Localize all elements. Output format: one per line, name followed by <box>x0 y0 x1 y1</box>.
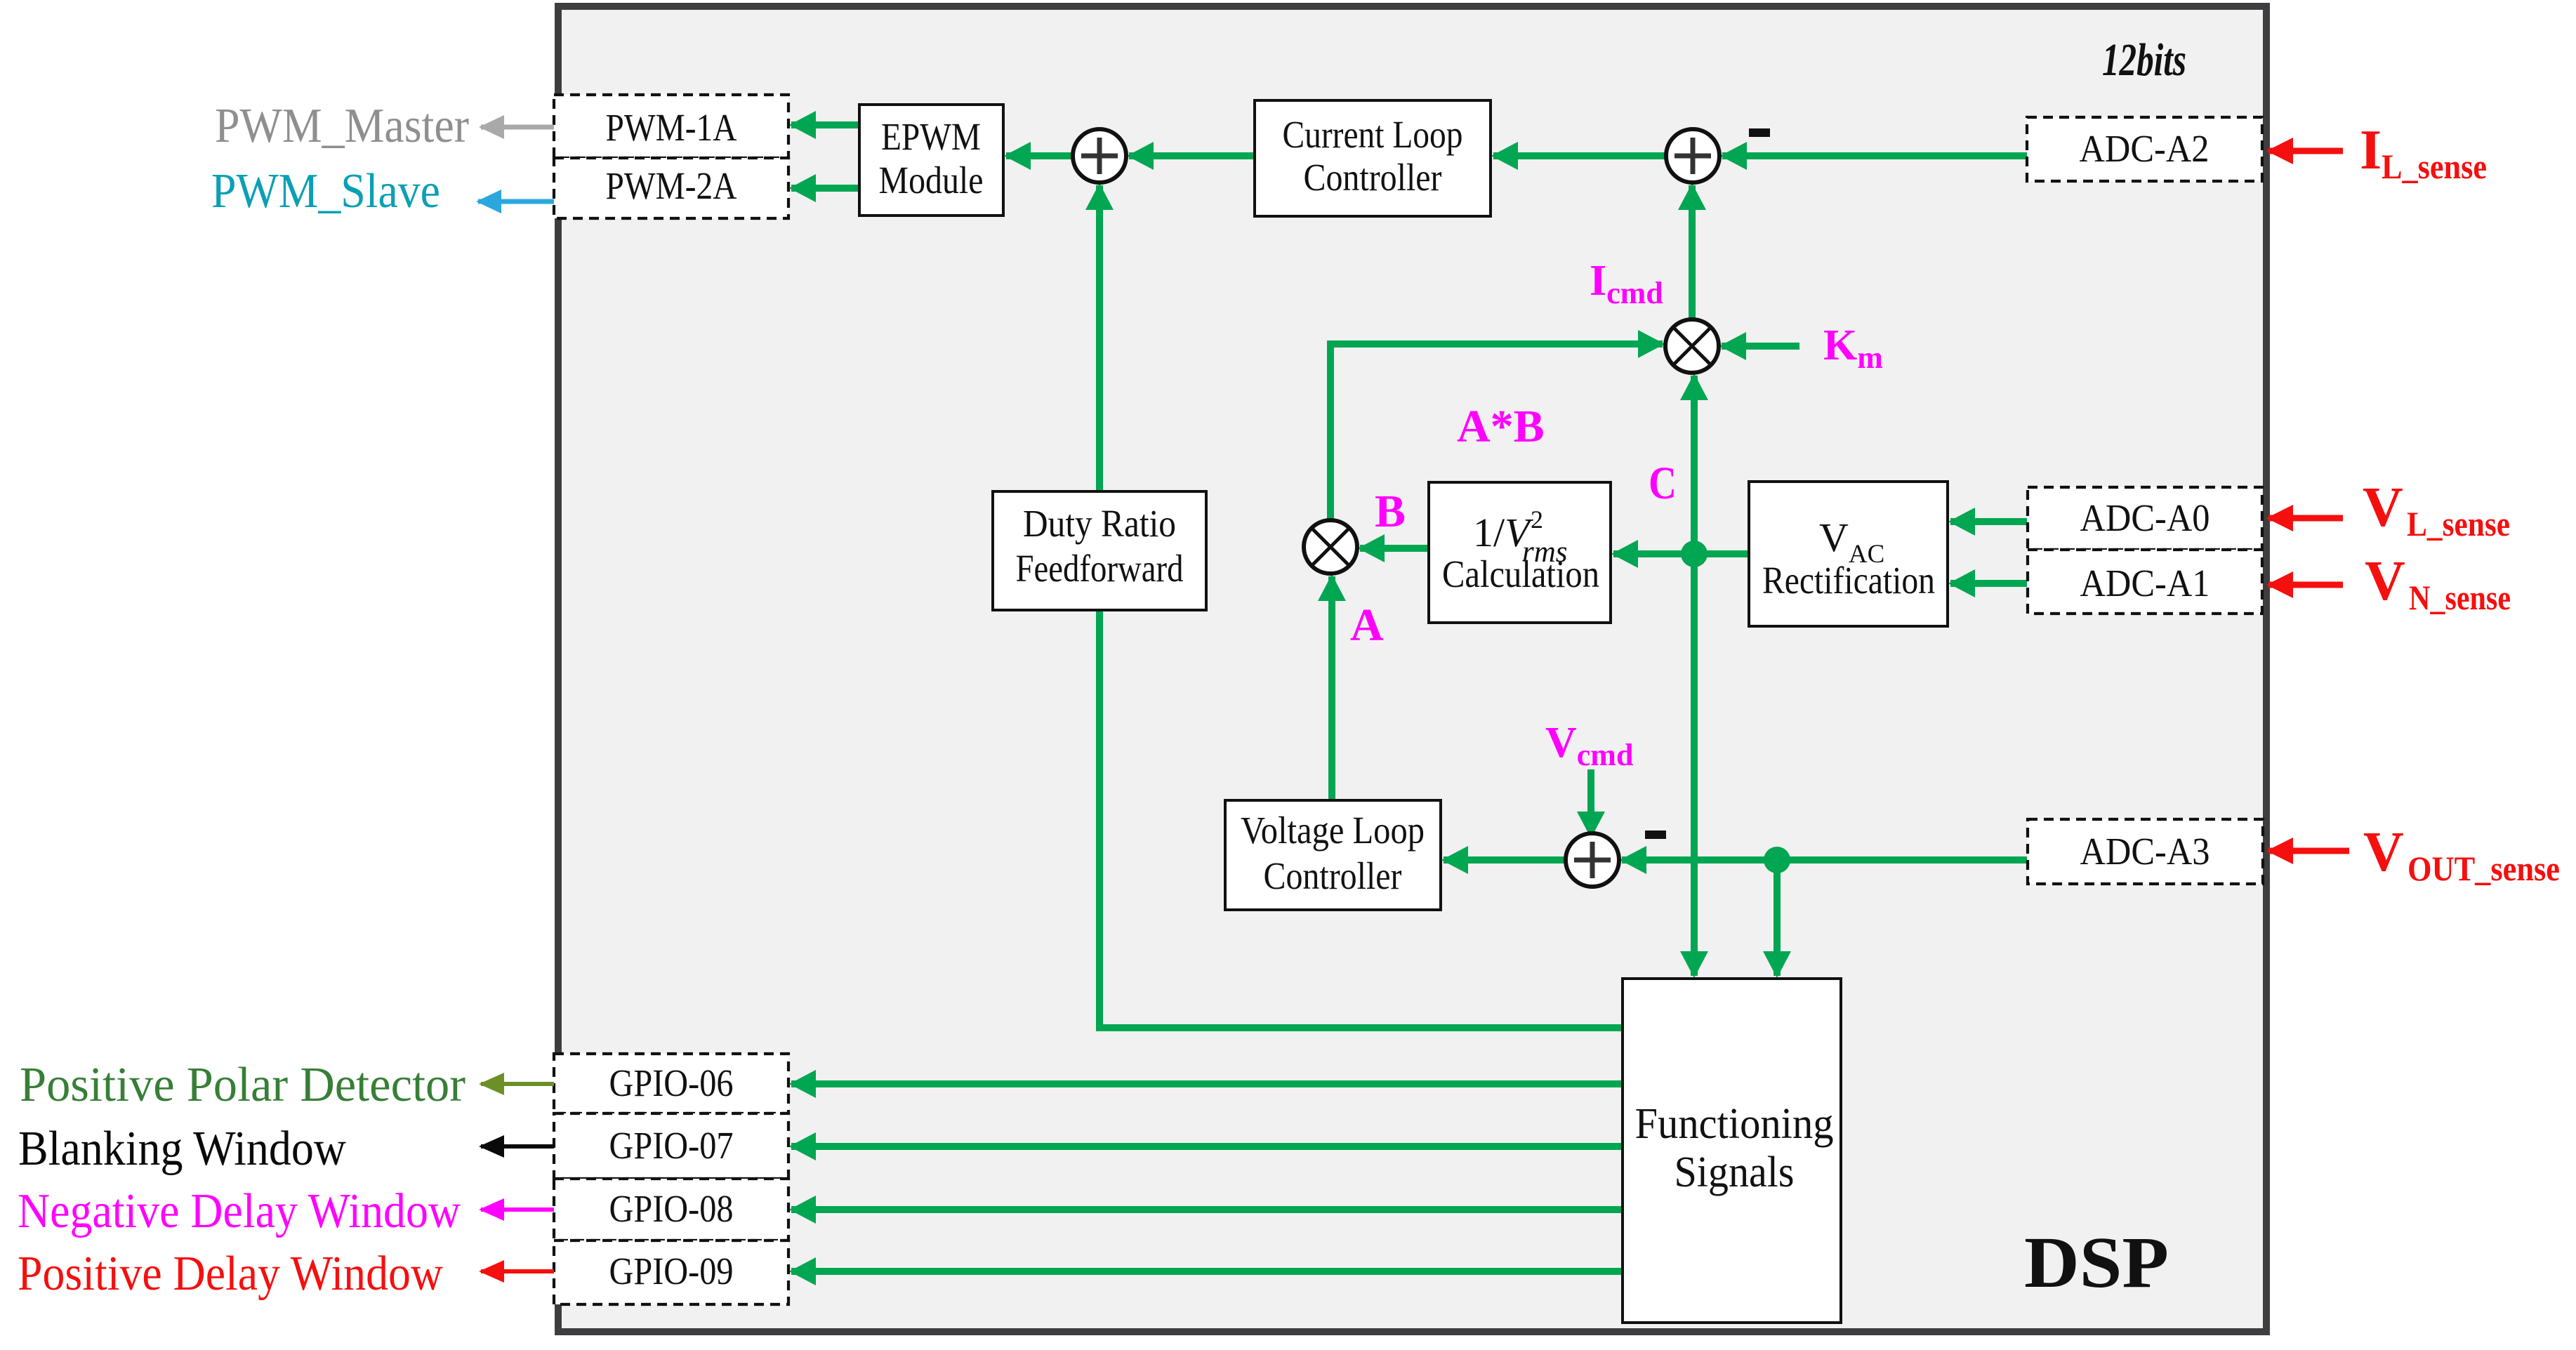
wire node C up into Km multiplier <box>1691 376 1698 554</box>
svg-text:Positive Delay Window: Positive Delay Window <box>18 1247 443 1301</box>
svg-text:Negative Delay Window: Negative Delay Window <box>18 1184 461 1238</box>
wire Vcmd into voltage summing junction <box>1587 769 1594 836</box>
wire voltage summing junction to Voltage Loop Controller <box>1444 856 1566 863</box>
wire ADC-A2 to current summing junction <box>1722 152 2027 159</box>
minus sign at current summing junction <box>1749 128 1770 137</box>
node dot on Vout feedback <box>1764 847 1790 873</box>
svg-text:PWM-2A: PWM-2A <box>606 164 737 207</box>
ADC-A0 dashed box <box>2028 487 2262 550</box>
wire Functioning Signals to GPIO-06 <box>791 1080 1623 1087</box>
svg-text:EPWM: EPWM <box>881 115 981 158</box>
wire ADC-A3 to voltage summing junction <box>1622 856 2027 863</box>
summing junction (current loop) <box>1666 129 1719 183</box>
summing junction (voltage loop) <box>1566 833 1619 887</box>
svg-text:Module: Module <box>879 159 984 201</box>
wire Functioning Signals to GPIO-09 <box>791 1268 1623 1275</box>
ADC-A1 dashed box <box>2028 550 2262 614</box>
DSP enclosure box <box>558 6 2266 1332</box>
svg-text:OUT_sense: OUT_sense <box>2407 849 2560 888</box>
red arrow Positive Delay Window <box>481 1269 554 1273</box>
black arrow Blanking Window <box>481 1144 554 1149</box>
GPIO-06 dashed box <box>554 1054 788 1113</box>
PWM-1A dashed box <box>554 95 788 158</box>
svg-text:ADC-A0: ADC-A0 <box>2080 496 2210 539</box>
wire Vout node down into Functioning Signals <box>1774 860 1781 976</box>
teal arrow PWM_Slave <box>478 199 554 204</box>
svg-text:Calculation: Calculation <box>1442 552 1599 595</box>
red arrow VOUT_sense input <box>2268 848 2349 854</box>
EPWM Module box <box>859 105 1003 216</box>
wire EPWM summing junction to EPWM Module <box>1006 152 1073 159</box>
svg-text:Controller: Controller <box>1264 854 1402 897</box>
1/Vrms2 Calculation box <box>1429 482 1611 623</box>
wire VAC Rectification output to node C <box>1694 550 1749 557</box>
svg-text:12bits: 12bits <box>2102 34 2186 86</box>
svg-text:Rectification: Rectification <box>1762 559 1935 602</box>
GPIO-07 dashed box <box>554 1113 788 1179</box>
summing junction (EPWM input) <box>1073 129 1126 183</box>
wire Current Loop Controller to EPWM summing junction <box>1129 152 1255 159</box>
Functioning Signals box <box>1623 979 1841 1323</box>
svg-text:L_sense: L_sense <box>2382 147 2487 186</box>
svg-text:Current Loop: Current Loop <box>1283 113 1463 156</box>
wire ADC-A1 to VAC Rectification <box>1950 580 2027 587</box>
svg-text:DSP: DSP <box>2024 1222 2169 1303</box>
multiplier Km (Icmd) <box>1665 319 1719 373</box>
wire EPWM Module to PWM-1A <box>791 121 859 128</box>
svg-text:V: V <box>2365 550 2405 612</box>
node dot C on VAC output <box>1681 541 1708 567</box>
svg-text:Controller: Controller <box>1304 156 1442 199</box>
wire node C to 1/Vrms2 Calculation <box>1613 550 1694 557</box>
wire Functioning Signals to GPIO-08 <box>791 1206 1623 1213</box>
wire EPWM Module to PWM-2A <box>791 185 859 192</box>
svg-text:GPIO-09: GPIO-09 <box>609 1250 734 1292</box>
svg-text:A*B: A*B <box>1457 401 1545 452</box>
red arrow IL_sense input <box>2268 148 2343 154</box>
svg-text:L_sense: L_sense <box>2407 504 2510 543</box>
wire Voltage Loop Controller output A up to multiplier <box>1328 576 1335 800</box>
svg-text:Functioning: Functioning <box>1635 1100 1834 1148</box>
svg-text:Signals: Signals <box>1675 1149 1795 1196</box>
wire ADC-A0 to VAC Rectification <box>1950 518 2027 525</box>
wire Km constant into multiplier <box>1722 343 1799 350</box>
svg-text:PWM_Slave: PWM_Slave <box>211 164 440 218</box>
wire current summing junction to Current Loop Controller <box>1493 152 1666 159</box>
wire node C down into Functioning Signals <box>1691 554 1698 976</box>
svg-text:GPIO-07: GPIO-07 <box>609 1124 734 1167</box>
svg-text:A: A <box>1350 600 1384 651</box>
wire 1/Vrms2 Calculation output B to multiplier <box>1360 545 1429 552</box>
svg-text:Blanking Window: Blanking Window <box>18 1122 346 1176</box>
ADC-A2 dashed box <box>2027 117 2262 181</box>
svg-text:N_sense: N_sense <box>2409 578 2511 617</box>
GPIO-08 dashed box <box>554 1179 788 1240</box>
svg-text:2: 2 <box>1531 505 1543 534</box>
svg-text:C: C <box>1649 458 1677 509</box>
GPIO-09 dashed box <box>554 1240 788 1304</box>
wire Icmd multiplier to current summing junction <box>1689 185 1696 320</box>
wire A*B product to Km multiplier <box>1330 344 1663 520</box>
svg-text:ADC-A2: ADC-A2 <box>2080 127 2210 170</box>
svg-text:I: I <box>2360 119 2382 181</box>
svg-text:Voltage Loop: Voltage Loop <box>1241 809 1425 852</box>
Current Loop Controller box <box>1255 100 1491 216</box>
svg-text:Feedforward: Feedforward <box>1016 547 1184 590</box>
svg-text:PWM-1A: PWM-1A <box>606 106 737 149</box>
magenta arrow Negative Delay Window <box>481 1207 554 1212</box>
svg-text:V: V <box>2363 821 2404 883</box>
svg-text:GPIO-06: GPIO-06 <box>609 1061 734 1104</box>
multiplier A*B <box>1304 520 1357 574</box>
wire Functioning Signals to GPIO-07 <box>791 1143 1623 1150</box>
Voltage Loop Controller box <box>1225 800 1441 910</box>
minus sign at voltage summing junction <box>1645 830 1666 839</box>
svg-text:V: V <box>2363 477 2403 538</box>
svg-text:GPIO-08: GPIO-08 <box>609 1187 734 1230</box>
svg-text:ADC-A1: ADC-A1 <box>2080 562 2210 604</box>
PWM-2A dashed box <box>554 158 788 218</box>
ADC-A3 dashed box <box>2028 819 2263 884</box>
svg-text:Duty Ratio: Duty Ratio <box>1023 502 1176 545</box>
svg-text:PWM_Master: PWM_Master <box>215 99 469 153</box>
gray arrow PWM_Master <box>481 125 554 130</box>
VAC Rectification box <box>1749 482 1948 626</box>
svg-text:Positive Polar Detector: Positive Polar Detector <box>20 1058 465 1112</box>
red arrow VN_sense input <box>2268 582 2343 588</box>
red arrow VL_sense input <box>2268 515 2343 522</box>
olive arrow Positive Polar Detector <box>481 1082 554 1086</box>
Duty Ratio Feedforward box <box>993 491 1206 610</box>
wire Functioning Signals to Duty Ratio Feedforward to EPWM summing junction <box>1099 185 1623 1028</box>
svg-text:ADC-A3: ADC-A3 <box>2080 830 2210 873</box>
svg-text:B: B <box>1375 486 1406 537</box>
